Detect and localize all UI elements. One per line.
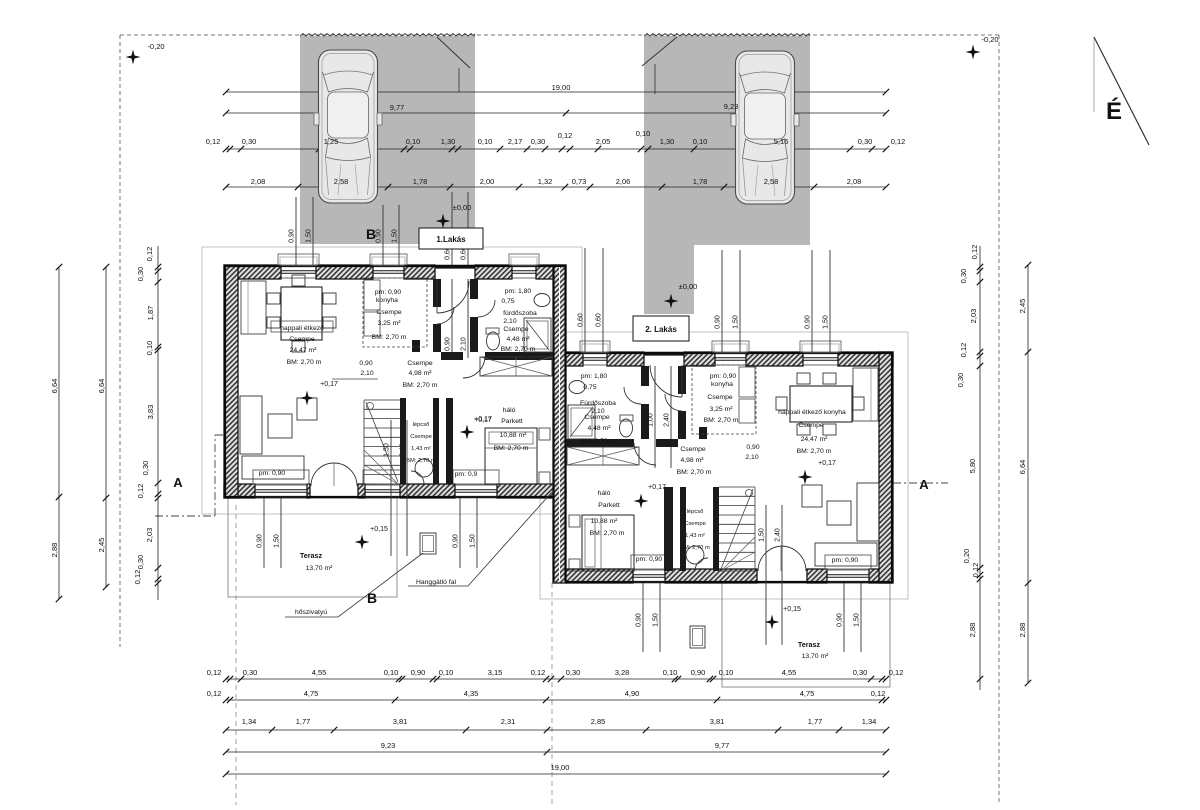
svg-text:1,25: 1,25 [324,137,339,146]
svg-text:0,90: 0,90 [805,315,812,329]
svg-text:pm: 0,90: pm: 0,90 [636,556,663,563]
svg-text:±0,00: ±0,00 [679,282,698,291]
svg-text:BM: 2,70 m: BM: 2,70 m [677,469,712,476]
svg-text:pm: 1,80: pm: 1,80 [581,373,608,380]
svg-text:Fürdőszoba: Fürdőszoba [580,400,616,407]
svg-text:4,90: 4,90 [625,689,640,698]
svg-text:24,47 m²: 24,47 m² [801,436,829,443]
svg-text:0,75: 0,75 [583,384,596,391]
svg-text:6,64: 6,64 [97,379,106,394]
svg-text:0,12: 0,12 [970,245,979,260]
svg-text:0,90: 0,90 [289,229,296,243]
svg-text:0,20: 0,20 [962,549,971,564]
svg-text:0,12: 0,12 [207,689,222,698]
svg-text:0,10: 0,10 [384,668,399,677]
svg-text:0,90: 0,90 [411,668,426,677]
svg-text:13,70 m²: 13,70 m² [802,653,830,660]
svg-text:0,90: 0,90 [359,360,372,367]
svg-text:+0,15: +0,15 [370,526,388,533]
svg-text:-0,20: -0,20 [147,42,164,51]
svg-text:1,34: 1,34 [242,717,257,726]
svg-text:0,73: 0,73 [572,177,587,186]
svg-text:4,98 m²: 4,98 m² [408,370,432,377]
svg-text:0,30: 0,30 [858,137,873,146]
svg-text:0,90: 0,90 [715,315,722,329]
svg-text:13,70 m²: 13,70 m² [306,565,334,572]
svg-text:0,90: 0,90 [445,337,452,351]
svg-text:1,32: 1,32 [538,177,553,186]
svg-text:0,30: 0,30 [242,137,257,146]
svg-text:1,50: 1,50 [653,613,660,627]
svg-text:Parkett: Parkett [501,418,523,425]
svg-text:Hanggátló fal: Hanggátló fal [416,579,457,586]
svg-text:+0,17: +0,17 [648,484,666,491]
svg-text:pm: 0,9: pm: 0,9 [455,471,478,478]
svg-text:2,85: 2,85 [591,717,606,726]
svg-text:0,30: 0,30 [531,137,546,146]
svg-text:konyha: konyha [711,381,733,388]
svg-text:0,90: 0,90 [837,613,844,627]
svg-text:1,50: 1,50 [854,613,861,627]
svg-text:1,50: 1,50 [306,229,313,243]
svg-text:0,10: 0,10 [406,137,421,146]
svg-text:1,50: 1,50 [823,315,830,329]
svg-text:Csempe: Csempe [410,434,432,440]
svg-text:0,10: 0,10 [145,341,154,356]
svg-text:0,12: 0,12 [133,570,142,585]
svg-text:+0,17: +0,17 [474,417,491,424]
svg-text:0,90: 0,90 [376,229,383,243]
svg-text:0,10: 0,10 [663,668,678,677]
svg-text:2. Lakás: 2. Lakás [645,325,677,334]
svg-text:1,77: 1,77 [296,717,311,726]
svg-text:0,12: 0,12 [891,137,906,146]
svg-text:1,34: 1,34 [862,717,877,726]
svg-text:0,12: 0,12 [971,563,980,578]
svg-text:hőszivatyú: hőszivatyú [295,609,327,616]
svg-text:0,30: 0,30 [136,555,145,570]
svg-text:+0,15: +0,15 [783,606,801,613]
svg-text:2,10: 2,10 [360,370,373,377]
svg-text:0,12: 0,12 [959,343,968,358]
svg-text:±0,00: ±0,00 [453,203,472,212]
svg-text:4,48 m²: 4,48 m² [506,336,530,343]
svg-text:0,12: 0,12 [871,689,886,698]
svg-text:2,45: 2,45 [97,538,106,553]
svg-text:2,31: 2,31 [501,717,516,726]
svg-text:9,23: 9,23 [381,741,396,750]
svg-text:2,08: 2,08 [251,177,266,186]
svg-text:0,10: 0,10 [719,668,734,677]
svg-text:konyha: konyha [376,297,398,304]
svg-text:1,43 m²: 1,43 m² [411,446,431,452]
svg-text:0,12: 0,12 [206,137,221,146]
svg-text:4,75: 4,75 [304,689,319,698]
svg-text:+0,17: +0,17 [818,460,836,467]
svg-text:0,10: 0,10 [693,137,708,146]
svg-text:nappali étkező konyha: nappali étkező konyha [778,409,846,416]
svg-text:3,81: 3,81 [393,717,408,726]
svg-text:0,60: 0,60 [596,313,603,327]
svg-text:0,30: 0,30 [141,461,150,476]
svg-text:3,81: 3,81 [710,717,725,726]
svg-text:Csempe: Csempe [684,521,706,527]
svg-text:pm: 1,80: pm: 1,80 [505,288,532,295]
svg-text:BM: 2,70 m: BM: 2,70 m [590,530,625,537]
svg-text:9,23: 9,23 [724,102,739,111]
svg-text:2,08: 2,08 [847,177,862,186]
svg-text:3,83: 3,83 [146,405,155,420]
svg-text:6,64: 6,64 [50,379,59,394]
svg-text:lépcső: lépcső [687,509,704,515]
svg-text:-0,20: -0,20 [981,35,998,44]
svg-text:0,12: 0,12 [889,668,904,677]
svg-text:2,58: 2,58 [764,177,779,186]
svg-text:nappali étkező: nappali étkező [280,325,324,332]
svg-text:2,40: 2,40 [664,413,671,427]
svg-text:10,88 m²: 10,88 m² [500,432,528,439]
svg-text:2,05: 2,05 [596,137,611,146]
svg-text:BM: 2,70 m: BM: 2,70 m [403,382,438,389]
svg-text:0,10: 0,10 [478,137,493,146]
svg-text:1,30: 1,30 [660,137,675,146]
svg-text:Csempe: Csempe [407,360,433,367]
svg-text:19,00: 19,00 [552,83,571,92]
svg-text:0,30: 0,30 [136,267,145,282]
svg-text:háló: háló [503,407,516,414]
svg-text:0,75: 0,75 [501,298,514,305]
svg-text:4,35: 4,35 [464,689,479,698]
svg-text:4,75: 4,75 [800,689,815,698]
svg-text:Terasz: Terasz [798,640,821,649]
svg-text:2,03: 2,03 [969,309,978,324]
svg-text:3,15: 3,15 [488,668,503,677]
svg-text:Csempe: Csempe [707,394,733,401]
svg-text:1,50: 1,50 [759,528,766,542]
svg-text:19,00: 19,00 [551,763,570,772]
svg-text:0,12: 0,12 [207,668,222,677]
svg-text:0,90: 0,90 [636,613,643,627]
svg-text:0,12: 0,12 [145,247,154,262]
svg-text:Csempe: Csempe [376,309,402,316]
svg-text:5,80: 5,80 [968,459,977,474]
svg-text:0,90: 0,90 [453,534,460,548]
svg-text:5,16: 5,16 [774,137,789,146]
svg-text:3,25 m²: 3,25 m² [377,320,401,327]
svg-text:2,10: 2,10 [461,337,468,351]
svg-text:0,60: 0,60 [578,313,585,327]
svg-text:1,50: 1,50 [274,534,281,548]
svg-text:1,78: 1,78 [693,177,708,186]
svg-text:Terasz: Terasz [300,551,323,560]
svg-text:3,25 m²: 3,25 m² [709,406,733,413]
svg-text:2,03: 2,03 [145,528,154,543]
svg-text:Csempe: Csempe [798,422,824,429]
svg-text:2,10: 2,10 [503,318,516,325]
svg-text:2,10: 2,10 [745,454,758,461]
svg-text:háló: háló [598,490,611,497]
svg-text:2,88: 2,88 [968,623,977,638]
svg-text:4,98 m²: 4,98 m² [680,457,704,464]
svg-text:0,30: 0,30 [956,373,965,388]
svg-text:pm: 0,90: pm: 0,90 [375,289,402,296]
svg-text:Csempe: Csempe [503,326,529,333]
svg-text:0,12: 0,12 [531,668,546,677]
svg-text:1,87: 1,87 [146,306,155,321]
svg-text:1,30: 1,30 [441,137,456,146]
svg-text:4,55: 4,55 [312,668,327,677]
svg-text:6,64: 6,64 [1018,460,1027,475]
svg-text:2,17: 2,17 [508,137,523,146]
svg-text:0,30: 0,30 [959,269,968,284]
svg-text:2,88: 2,88 [50,543,59,558]
svg-text:B: B [366,226,376,242]
svg-text:2,45: 2,45 [1018,299,1027,314]
svg-text:BM: 2,70 m: BM: 2,70 m [372,334,407,341]
svg-text:1,50: 1,50 [392,229,399,243]
svg-text:0,10: 0,10 [439,668,454,677]
svg-text:1,77: 1,77 [808,717,823,726]
svg-text:BM: 2,70 m: BM: 2,70 m [287,359,322,366]
svg-text:A: A [919,477,929,492]
svg-text:Csempe: Csempe [680,446,706,453]
svg-text:lépcső: lépcső [413,422,430,428]
svg-text:BM: 2,70 m: BM: 2,70 m [704,417,739,424]
svg-text:A: A [173,475,183,490]
svg-text:+0,17: +0,17 [320,381,338,388]
svg-text:pm: 0,90: pm: 0,90 [832,557,859,564]
svg-text:BM: 2,70 m: BM: 2,70 m [501,346,536,353]
svg-text:4,48 m²: 4,48 m² [587,425,611,432]
svg-text:0,90: 0,90 [691,668,706,677]
svg-text:9,77: 9,77 [715,741,730,750]
svg-text:0,10: 0,10 [636,129,651,138]
svg-text:1,43 m²: 1,43 m² [685,533,705,539]
svg-text:0,30: 0,30 [243,668,258,677]
svg-text:BM: 2,70 m: BM: 2,70 m [494,445,529,452]
svg-text:4,55: 4,55 [782,668,797,677]
svg-text:0,90: 0,90 [257,534,264,548]
svg-text:2,40: 2,40 [775,528,782,542]
svg-text:BM: 2,70 m: BM: 2,70 m [581,438,616,445]
svg-text:24,47 m²: 24,47 m² [290,347,318,354]
svg-text:pm: 0,90: pm: 0,90 [710,373,737,380]
svg-text:9,77: 9,77 [390,103,405,112]
svg-text:2,58: 2,58 [334,177,349,186]
svg-text:1,50: 1,50 [733,315,740,329]
svg-text:É: É [1106,97,1122,125]
svg-text:0,12: 0,12 [558,131,573,140]
svg-text:Csempe: Csempe [584,414,610,421]
svg-text:Csempe: Csempe [289,336,315,343]
svg-text:BM: 2,70 m: BM: 2,70 m [797,448,832,455]
svg-text:10,88 m²: 10,88 m² [591,518,619,525]
svg-text:1,78: 1,78 [413,177,428,186]
svg-text:0,12: 0,12 [136,484,145,499]
svg-text:0,30: 0,30 [853,668,868,677]
svg-text:2,88: 2,88 [1018,623,1027,638]
svg-text:B: B [367,590,377,606]
svg-text:1,50: 1,50 [470,534,477,548]
svg-text:0,90: 0,90 [746,444,759,451]
svg-text:2,00: 2,00 [480,177,495,186]
svg-text:0,30: 0,30 [566,668,581,677]
svg-text:BM: 2,70 m: BM: 2,70 m [680,545,710,551]
svg-text:3,28: 3,28 [615,668,630,677]
svg-text:pm: 0,90: pm: 0,90 [259,470,286,477]
svg-text:Parkett: Parkett [598,502,620,509]
svg-text:1.Lakás: 1.Lakás [436,235,466,244]
svg-text:fürdőszoba: fürdőszoba [503,310,537,317]
svg-text:2,06: 2,06 [616,177,631,186]
svg-text:BM: 2,70 m: BM: 2,70 m [406,458,436,464]
